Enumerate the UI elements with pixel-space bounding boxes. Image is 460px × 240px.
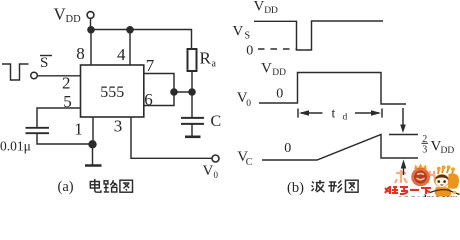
svg-text:d: d xyxy=(343,113,348,123)
terminal Vo xyxy=(212,155,219,162)
waveform VS xyxy=(254,21,383,50)
watermark text weiku xyxy=(385,186,431,194)
wire pin5 xyxy=(37,108,81,128)
node S label xyxy=(40,55,52,71)
capacitor 0.01u xyxy=(26,128,50,133)
td arrow left xyxy=(299,110,323,116)
wire pin1 xyxy=(92,117,94,144)
svg-text:S: S xyxy=(245,31,251,42)
td tick right xyxy=(381,109,383,118)
arrow down 2/3VDD xyxy=(400,108,406,133)
zero dashes VS xyxy=(258,48,296,50)
wire ground stem xyxy=(92,144,94,165)
svg-text:0: 0 xyxy=(284,141,291,156)
junction pin1-ground xyxy=(88,140,96,148)
td tick left xyxy=(297,109,299,118)
terminal VDD xyxy=(87,12,94,19)
svg-text:S: S xyxy=(40,55,48,71)
junction pin6-pin7 xyxy=(170,88,178,96)
label VC xyxy=(237,149,253,168)
svg-text:R: R xyxy=(200,49,212,68)
caption char lu xyxy=(104,180,117,192)
junction pin4 xyxy=(126,26,134,34)
svg-text:0: 0 xyxy=(214,170,219,180)
arrow up 2/3VDD xyxy=(401,160,407,176)
ground under C xyxy=(185,136,201,139)
waveform V0 xyxy=(259,73,406,105)
wire VDD stem xyxy=(90,19,92,28)
svg-text:555: 555 xyxy=(100,84,124,101)
svg-text:8: 8 xyxy=(76,44,85,63)
waveform VC xyxy=(262,135,418,161)
input pulse symbol xyxy=(2,64,29,80)
svg-text:DD: DD xyxy=(264,6,278,16)
td arrow right xyxy=(355,110,381,116)
wire Ra bottom xyxy=(191,71,193,92)
label td xyxy=(332,106,348,123)
wire pin3 to Vo xyxy=(131,117,212,158)
svg-text:7: 7 xyxy=(146,56,155,75)
label Vo xyxy=(203,163,219,180)
svg-text:2: 2 xyxy=(62,74,71,93)
wire VDD rail xyxy=(91,30,192,50)
svg-text:1: 1 xyxy=(74,120,83,139)
svg-text:3: 3 xyxy=(422,145,427,156)
svg-text:DD: DD xyxy=(66,14,82,25)
node VDD label xyxy=(54,5,82,26)
svg-text:(b): (b) xyxy=(287,180,304,196)
wire pin4 xyxy=(129,30,131,66)
op-amp U1 555 box xyxy=(81,65,144,117)
svg-text:0: 0 xyxy=(276,87,283,102)
svg-text:a: a xyxy=(212,59,217,70)
label VDD top xyxy=(254,0,279,16)
label V0 xyxy=(237,90,252,109)
svg-text:6: 6 xyxy=(144,90,153,109)
wire junction link xyxy=(174,91,192,93)
wire pin2 xyxy=(38,75,81,77)
label 2/3 VDD xyxy=(422,134,455,156)
caption char dian xyxy=(90,179,101,192)
wire pin8 xyxy=(90,30,92,66)
svg-text:C: C xyxy=(211,113,222,130)
svg-text:V: V xyxy=(233,24,244,40)
watermark ghost glyphs xyxy=(395,170,435,183)
resistor Ra xyxy=(188,49,197,71)
extension line top xyxy=(389,134,418,136)
junction VDD-pin8 xyxy=(87,26,95,34)
label Ra xyxy=(200,49,217,70)
svg-text:DD: DD xyxy=(272,68,286,78)
svg-text:3: 3 xyxy=(114,117,123,136)
watermark badge xyxy=(411,164,430,187)
wire pin7 xyxy=(144,74,174,106)
svg-text:V: V xyxy=(254,0,265,15)
label VS xyxy=(233,24,251,42)
svg-text:(a): (a) xyxy=(58,179,74,195)
svg-text:www.dzsc.com: www.dzsc.com xyxy=(399,194,458,197)
junction Ra-C xyxy=(188,88,196,96)
ground main xyxy=(85,164,102,167)
caption char bo xyxy=(312,180,325,192)
svg-text:V: V xyxy=(203,163,214,179)
caption char tu2 xyxy=(346,180,359,192)
svg-text:t: t xyxy=(332,106,336,121)
wire C ground stem xyxy=(191,124,193,137)
wire C stem xyxy=(191,92,193,118)
caption char tu xyxy=(120,180,133,192)
svg-text:0: 0 xyxy=(246,44,253,59)
capacitor C xyxy=(181,118,204,124)
svg-text:V: V xyxy=(261,60,272,76)
watermark mascot xyxy=(430,165,460,196)
terminal S xyxy=(31,72,38,79)
svg-text:0.01μ: 0.01μ xyxy=(0,139,31,154)
wire cap bottom xyxy=(37,133,93,144)
svg-text:0: 0 xyxy=(246,99,251,109)
caption char xing xyxy=(328,181,342,193)
svg-text:4: 4 xyxy=(117,45,126,64)
svg-text:C: C xyxy=(246,157,253,168)
label VDD mid xyxy=(261,60,286,78)
svg-text:DD: DD xyxy=(441,146,455,156)
